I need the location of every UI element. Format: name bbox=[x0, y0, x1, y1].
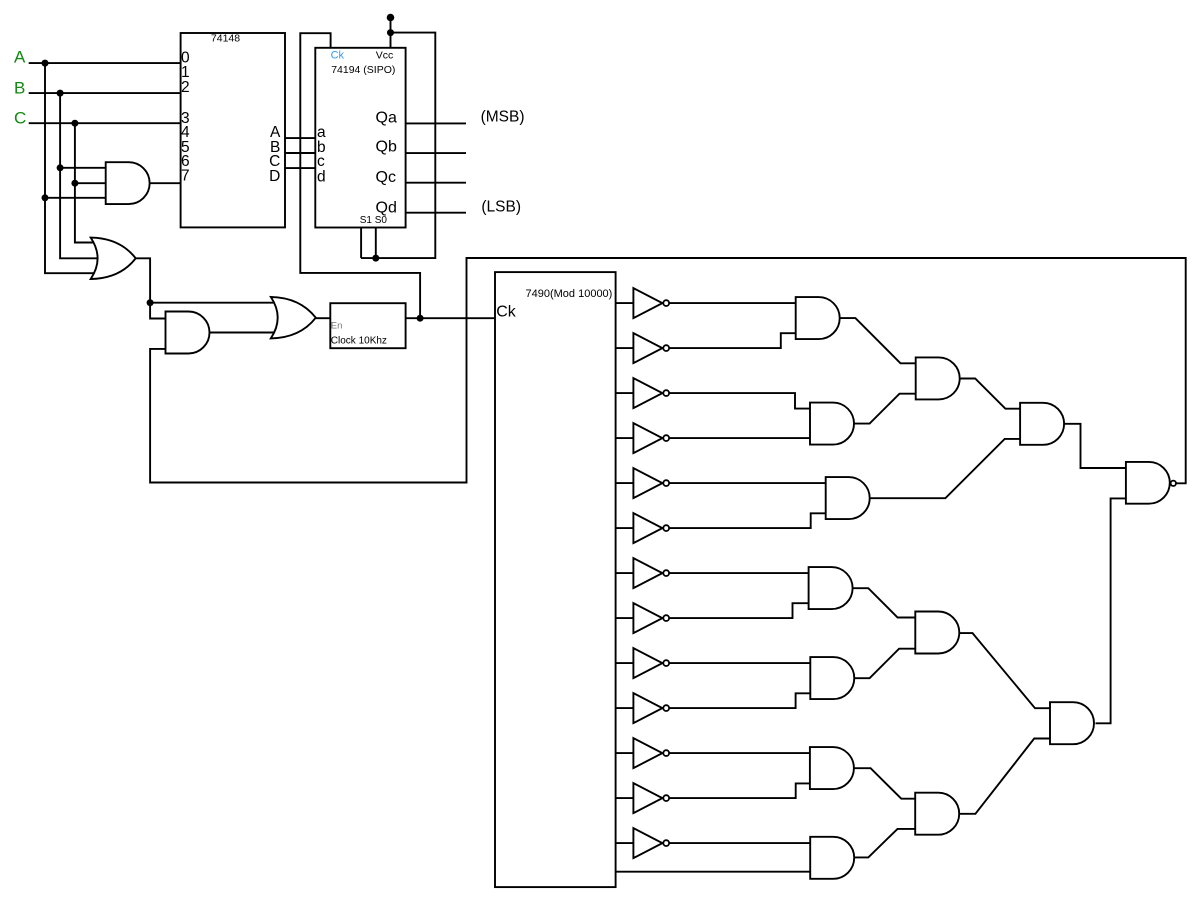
inverter N3 bbox=[633, 378, 662, 408]
junction node C bbox=[71, 120, 78, 127]
and-gate L3b bbox=[1050, 702, 1094, 744]
wire Qc output bbox=[406, 182, 466, 184]
svg-text:B: B bbox=[14, 79, 25, 98]
wire N3 output to AND B1 bbox=[670, 393, 811, 409]
and-gate C1 bbox=[826, 477, 870, 519]
svg-text:En: En bbox=[331, 320, 343, 331]
inverter N8 bbox=[633, 603, 662, 633]
wire N1 output to AND A1 bbox=[670, 302, 796, 304]
wire N5 output to AND C1 bbox=[670, 482, 826, 484]
wire N9 output to AND E1 bbox=[670, 662, 811, 664]
wire inverter N11 stub bbox=[616, 752, 634, 754]
and-gate L2b bbox=[915, 612, 959, 654]
wire 74148 C to 74194 c bbox=[285, 167, 315, 169]
svg-text:Qb: Qb bbox=[376, 139, 397, 156]
inverter N10 bbox=[633, 693, 662, 723]
wire inverter N3 stub bbox=[616, 392, 634, 394]
wire inverter N6 stub bbox=[616, 527, 634, 529]
wire inverter N4 stub bbox=[616, 437, 634, 439]
junction B to G1 bbox=[57, 164, 64, 171]
svg-text:7490(Mod 10000): 7490(Mod 10000) bbox=[526, 288, 613, 300]
wire N6 output to AND C1 bbox=[670, 513, 826, 528]
wire N11 output to AND F1 bbox=[670, 752, 810, 754]
Vcc terminal dot bbox=[387, 14, 395, 22]
svg-text:D: D bbox=[269, 168, 280, 185]
or-gate OR2 bbox=[271, 297, 316, 339]
svg-text:Qd: Qd bbox=[376, 199, 397, 216]
nand output bubble bbox=[1171, 481, 1176, 486]
svg-text:S1 S0: S1 S0 bbox=[360, 215, 388, 226]
wire G1b output to AND L2c bbox=[854, 829, 915, 858]
svg-text:d: d bbox=[317, 169, 326, 186]
wire 74148 A to 74194 a bbox=[285, 137, 315, 139]
wire S1 pin bbox=[360, 228, 362, 259]
wire N10 output to AND E1 bbox=[670, 693, 811, 708]
svg-text:A: A bbox=[14, 48, 26, 67]
wire G1 output to 74148 pin 7 bbox=[150, 182, 181, 184]
wire L3a output to NAND top input bbox=[1064, 424, 1126, 468]
junction node B bbox=[57, 90, 64, 97]
nand-gate NAND1 bbox=[1126, 462, 1170, 504]
wire F1 output to AND L2c bbox=[854, 768, 915, 799]
junction S1 S0 node bbox=[372, 255, 379, 262]
inverter N4 bbox=[633, 423, 662, 453]
svg-text:C: C bbox=[14, 109, 26, 128]
inverter N12 bbox=[633, 783, 662, 813]
junction node A bbox=[42, 60, 49, 67]
wire D1 output to AND L2b bbox=[853, 588, 916, 617]
wire A vertical to OR1 bottom input bbox=[45, 63, 97, 273]
svg-text:Vcc: Vcc bbox=[376, 49, 394, 61]
chip 7490 U3 bbox=[495, 272, 616, 887]
wire N7 output to AND D1 bbox=[670, 572, 809, 574]
svg-text:2: 2 bbox=[181, 79, 190, 96]
wire B vertical to OR1 middle input bbox=[60, 93, 100, 258]
inverter N5 bbox=[633, 468, 662, 498]
svg-text:(MSB): (MSB) bbox=[481, 108, 525, 125]
inverter N13 bbox=[633, 828, 662, 858]
wire Qd output bbox=[406, 212, 466, 214]
and-gate G2 bbox=[166, 312, 210, 354]
wire input B bbox=[29, 92, 181, 94]
svg-text:Qa: Qa bbox=[376, 110, 397, 127]
svg-text:74194 (SIPO): 74194 (SIPO) bbox=[331, 64, 395, 76]
wire inverter N9 stub bbox=[616, 662, 634, 664]
wire inverter N12 stub bbox=[616, 797, 634, 799]
svg-text:(LSB): (LSB) bbox=[481, 198, 521, 215]
wire input C bbox=[29, 122, 181, 124]
wire C1 output to AND L3a bbox=[870, 439, 1020, 498]
junction A to G1 bbox=[42, 194, 49, 201]
inverter N11 bbox=[633, 738, 662, 768]
wire L2b output to AND L3b bbox=[959, 633, 1050, 708]
and-gate A1 bbox=[796, 297, 840, 339]
wire E1 output to AND L2b bbox=[854, 649, 915, 679]
wire inverter N1 stub bbox=[616, 302, 634, 304]
wire B branch to AND G1 input 1 bbox=[60, 167, 107, 169]
and-gate L3a bbox=[1020, 403, 1064, 445]
wire 7490 direct output to AND G1b bbox=[616, 871, 811, 873]
svg-text:c: c bbox=[317, 153, 325, 170]
junction Vcc node bbox=[387, 29, 394, 36]
svg-text:Clock 10Khz: Clock 10Khz bbox=[331, 335, 387, 346]
wire N13 output to AND G1b bbox=[670, 842, 811, 844]
svg-text:Ck: Ck bbox=[331, 49, 345, 61]
and-gate F1 bbox=[810, 747, 854, 789]
junction OR1 output node bbox=[147, 299, 154, 306]
and-gate L2c bbox=[915, 793, 959, 835]
inverter N2 bbox=[633, 333, 662, 363]
or-gate OR1 bbox=[91, 238, 136, 279]
wire 74148 B to 74194 b bbox=[285, 152, 315, 154]
and-gate E1 bbox=[810, 657, 854, 699]
clock box CLK1 bbox=[330, 303, 405, 348]
inverter N1 bbox=[633, 288, 662, 318]
wire OR1 output to AND G2 top input bbox=[136, 258, 167, 318]
junction clock output node bbox=[417, 315, 424, 322]
wire N8 output to AND D1 bbox=[670, 603, 809, 618]
inverter N9 bbox=[633, 648, 662, 678]
inverter N7 bbox=[633, 558, 662, 588]
wire inverter N2 stub bbox=[616, 347, 634, 349]
wire input A bbox=[29, 62, 181, 64]
and-gate G1 bbox=[106, 162, 150, 204]
wire N2 output to AND A1 bbox=[670, 333, 796, 348]
wire G2 output to OR2 bottom input bbox=[210, 332, 278, 334]
and-gate D1 bbox=[809, 567, 853, 609]
wire C branch to AND G1 input 2 bbox=[75, 182, 107, 184]
wire S0 pin bbox=[375, 228, 377, 259]
wire C vertical to OR1 top input bbox=[75, 123, 96, 242]
wire OR2 output to clock box bbox=[316, 317, 331, 319]
wire clock output to 7490 Ck bbox=[406, 317, 495, 319]
wire inverter N13 stub bbox=[616, 842, 634, 844]
wire inverter N5 stub bbox=[616, 482, 634, 484]
and-gate L2a bbox=[916, 357, 960, 399]
wire N12 output to AND F1 bbox=[670, 783, 810, 798]
wire L3b output to NAND bottom input bbox=[1096, 498, 1126, 723]
wire Vcc terminal to 74194 Vcc pin bbox=[390, 18, 392, 48]
wire B1 output to AND L2a bbox=[854, 394, 916, 424]
svg-text:74148: 74148 bbox=[211, 33, 240, 45]
wire Vcc branch to S1 S0 junction bbox=[361, 33, 435, 259]
chip 74194 U2 bbox=[315, 48, 405, 228]
wire clock branch to 74194 Ck bbox=[300, 33, 420, 318]
wire L2c output to AND L3b bbox=[959, 739, 1050, 814]
wire inverter N7 stub bbox=[616, 572, 634, 574]
and-gate B1 bbox=[810, 403, 854, 445]
inverter N6 bbox=[633, 513, 662, 543]
junction C to G1 bbox=[71, 180, 78, 187]
chip 74148 U1 bbox=[181, 33, 285, 227]
wire inverter N10 stub bbox=[616, 707, 634, 709]
svg-text:Qc: Qc bbox=[376, 169, 396, 186]
wire N4 output to AND B1 bbox=[670, 437, 811, 439]
wire node to OR2 top input bbox=[150, 302, 277, 304]
wire Qb output bbox=[406, 152, 466, 154]
wire Qa output bbox=[406, 122, 466, 124]
wire A1 output to AND L2a bbox=[840, 318, 916, 363]
and-gate G1b bbox=[810, 837, 854, 879]
svg-text:Ck: Ck bbox=[496, 304, 517, 321]
wire A branch to AND G1 input 3 bbox=[45, 197, 107, 199]
wire NAND output feedback loop to AND G2 bottom input bbox=[150, 258, 1186, 483]
svg-text:7: 7 bbox=[181, 167, 190, 184]
wire inverter N8 stub bbox=[616, 617, 634, 619]
wire L2a output to AND L3a bbox=[960, 379, 1020, 409]
